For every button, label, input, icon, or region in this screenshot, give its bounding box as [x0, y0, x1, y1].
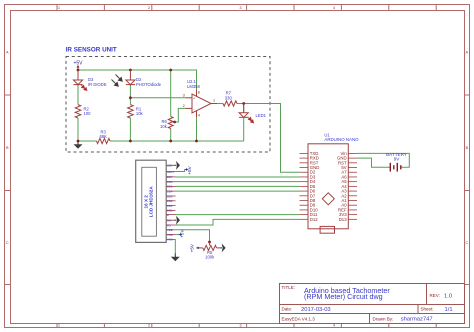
junction +5V at R6	[169, 69, 172, 72]
LCD screen inner rectangle	[142, 167, 157, 236]
svg-text:EasyEDA V4.1.3: EasyEDA V4.1.3	[282, 316, 316, 321]
svg-text:Sheet:: Sheet:	[421, 307, 434, 312]
svg-text:2017-03-03: 2017-03-03	[301, 307, 331, 313]
D2 incident light arrows	[112, 75, 123, 87]
junction R7 / LED1 output node	[242, 102, 245, 105]
photodiode D2	[126, 70, 135, 86]
wire node to LED1 anode	[243, 104, 245, 113]
wire op-amp output to R7	[217, 103, 223, 105]
wire node to R1	[129, 98, 131, 105]
svg-text:3: 3	[183, 94, 185, 98]
LCD pin DB3	[166, 194, 175, 198]
junction ground rail at op-amp pin 4	[195, 140, 198, 143]
Arduino Nano right pin A3	[341, 189, 357, 194]
svg-text:2: 2	[148, 6, 150, 10]
Arduino Nano left pin TXD	[300, 151, 319, 156]
svg-text:8: 8	[198, 90, 200, 94]
Arduino Nano left pin D9	[300, 203, 316, 208]
svg-text:C: C	[465, 241, 468, 245]
Arduino Nano right pin A7	[341, 170, 357, 175]
wire LED1 cathode to ground rail	[243, 117, 245, 141]
svg-text:DB4: DB4	[167, 189, 173, 193]
IR sensor unit enclosure box	[66, 57, 270, 153]
Arduino Nano right pin A0	[341, 203, 357, 208]
Arduino Nano right pin 5V	[341, 165, 357, 170]
svg-text:1: 1	[213, 99, 215, 103]
power flag +5V supply IR sensor unit	[73, 60, 83, 70]
Arduino Nano right pin A2	[341, 193, 357, 198]
svg-text:DB5: DB5	[167, 185, 173, 189]
svg-text:IR DIODE: IR DIODE	[88, 82, 107, 87]
wire LCD RS to Arduino D12	[176, 219, 300, 225]
title text	[304, 286, 390, 301]
ground LCD LED- ground	[174, 161, 180, 170]
battery 9V	[390, 163, 401, 172]
svg-text:DB3: DB3	[167, 194, 173, 198]
Arduino Nano right pin A4	[341, 184, 357, 189]
power flag +5V LCD backlight LED+	[185, 165, 192, 174]
Arduino Nano left pin D2	[300, 170, 316, 175]
LCD pin LED+	[166, 170, 175, 174]
wire LCD VDD to +5V	[176, 234, 179, 236]
wire comparator output to Arduino D2	[244, 104, 300, 173]
wire LCD DB7 to Arduino D3	[176, 176, 300, 178]
svg-text:10k: 10k	[160, 124, 168, 129]
svg-text:PHOTOdiode: PHOTOdiode	[136, 82, 162, 87]
Arduino Nano right pin REF	[338, 207, 357, 212]
svg-text:16 X 2: 16 X 2	[143, 195, 148, 209]
wire LCD VSS to ground	[174, 239, 176, 254]
LCD pin VSS	[166, 238, 175, 242]
svg-text:100: 100	[84, 111, 92, 116]
svg-text:2: 2	[183, 104, 185, 108]
R5 wiper lead	[209, 242, 211, 245]
svg-text:DB7: DB7	[167, 175, 173, 179]
junction photodiode / R1 / op-amp input	[129, 96, 132, 99]
LCD pin LED-	[166, 164, 175, 168]
svg-text:10k: 10k	[136, 111, 144, 116]
junction +5V at D3	[77, 69, 80, 72]
Arduino Nano diamond mark	[322, 193, 334, 205]
svg-text:+5V: +5V	[180, 229, 185, 238]
svg-text:2: 2	[148, 324, 150, 328]
wire R7 to LED1 node	[237, 103, 244, 105]
LED1 indicator	[239, 104, 248, 118]
wire op-amp pin 2 to R6 wiper	[175, 108, 186, 122]
svg-text:RS: RS	[167, 223, 171, 227]
resistor R3 68K	[97, 130, 111, 144]
Arduino Nano right pin GND	[337, 156, 357, 161]
svg-text:IR SENSOR UNIT: IR SENSOR UNIT	[66, 47, 117, 54]
wire +5V rail to R6 top	[170, 70, 172, 117]
op-amp pin numbers and polarity marks	[183, 90, 215, 117]
svg-text:+5V: +5V	[73, 60, 83, 66]
Arduino Nano left pin GND	[300, 165, 320, 170]
svg-text:E: E	[167, 213, 169, 217]
LCD pin DB1	[166, 204, 175, 208]
junction ground rail at R2	[77, 140, 80, 143]
wire photodiode to node	[129, 86, 131, 98]
Arduino Nano left pin D3	[300, 174, 316, 179]
ground LCD RW ground	[174, 216, 180, 225]
svg-text:3: 3	[240, 6, 242, 10]
title block	[280, 284, 465, 324]
wire LCD DB4 to Arduino D6	[176, 190, 300, 192]
R5 right lead	[217, 247, 221, 249]
IR emitter diode D3	[73, 70, 82, 86]
wire op-amp pin 4 to ground rail	[196, 117, 198, 141]
svg-text:DB2: DB2	[167, 199, 173, 203]
svg-text:68K: 68K	[99, 134, 107, 139]
svg-text:3: 3	[240, 324, 242, 328]
svg-text:TITLE:: TITLE:	[282, 285, 296, 290]
svg-text:1/1: 1/1	[445, 307, 453, 313]
resistor R1 10k	[128, 105, 144, 118]
ground IR sensor unit ground	[74, 141, 83, 149]
LED1 emission arrows	[248, 117, 254, 123]
svg-text:LM358: LM358	[187, 84, 200, 89]
Arduino Nano left pin D5	[300, 184, 316, 189]
Arduino Nano left pin D10	[300, 207, 319, 212]
Arduino Nano right pin RST	[338, 160, 357, 165]
LCD pin RS	[166, 223, 175, 227]
junction ground rail at R1	[129, 140, 132, 143]
svg-text:VEE: VEE	[167, 228, 173, 232]
svg-text:LED+: LED+	[167, 170, 174, 174]
svg-text:LED-: LED-	[167, 164, 173, 168]
svg-text:RW: RW	[167, 219, 172, 223]
Arduino Nano right pin A5	[341, 179, 357, 184]
wire LCD LED+ to +5V	[176, 170, 185, 172]
LCD pin RW	[166, 219, 175, 223]
svg-text:Date:: Date:	[282, 307, 293, 312]
wire LCD VEE to R5 wiper	[176, 230, 210, 242]
resistor R2 100	[75, 105, 91, 118]
svg-text:1: 1	[58, 6, 60, 10]
junction R6 wiper tap	[173, 121, 176, 124]
wire ground rail left of R3	[78, 140, 97, 142]
Arduino Nano left pin D4	[300, 179, 316, 184]
svg-text:1: 1	[58, 324, 60, 328]
svg-text:9V: 9V	[394, 156, 401, 161]
svg-text:LED1: LED1	[256, 113, 267, 118]
Arduino Nano USB connector mark	[320, 226, 334, 233]
Arduino Nano left pin D6	[300, 189, 316, 194]
Arduino Nano right pin 3V3	[339, 212, 357, 217]
junction R5 wiper	[208, 241, 211, 244]
svg-text:ARDUINO NANO: ARDUINO NANO	[324, 137, 359, 142]
Arduino Nano right pin D13	[339, 217, 357, 222]
svg-text:+5V: +5V	[189, 243, 194, 252]
LCD pin E	[166, 213, 175, 217]
wire D3 cathode to R2	[77, 86, 79, 105]
wire LCD E to Arduino D11	[176, 214, 300, 216]
svg-text:LCD JHD162A: LCD JHD162A	[149, 186, 154, 218]
Arduino Nano right pin A1	[341, 198, 357, 203]
title block values	[301, 293, 453, 322]
LCD pin DB7	[166, 175, 175, 179]
LCD pin DB5	[166, 185, 175, 189]
svg-text:100k: 100k	[205, 254, 215, 259]
svg-text:sharmaz747: sharmaz747	[401, 317, 433, 323]
LCD pin VDD	[166, 233, 175, 237]
LCD pin DB6	[166, 180, 175, 184]
Arduino Nano left pin D11	[300, 212, 318, 217]
wire R6 bottom to ground rail	[170, 129, 172, 142]
LCD pin DB4	[166, 189, 175, 193]
svg-text:(RPM Meter) Circuit dwg: (RPM Meter) Circuit dwg	[304, 292, 383, 301]
svg-text:4: 4	[198, 113, 200, 117]
Arduino Nano right pin A6	[341, 174, 357, 179]
wire LCD DB6 to Arduino D4	[176, 181, 300, 183]
Arduino Nano right pin Vin	[340, 151, 357, 156]
wire R1 to ground rail	[129, 118, 131, 141]
svg-text:+5V: +5V	[187, 165, 192, 174]
Arduino Nano left pin D12	[300, 217, 319, 222]
svg-text:DB1: DB1	[167, 204, 173, 208]
LCD module 16x2 JHD162A body	[136, 160, 167, 242]
wire LCD DB5 to Arduino D5	[176, 185, 300, 187]
Arduino Nano U3 body	[308, 144, 348, 229]
ground R5 ground	[220, 244, 226, 253]
svg-text:VDD: VDD	[167, 233, 173, 237]
ground LCD VSS ground	[171, 254, 180, 262]
svg-text:DB6: DB6	[167, 180, 173, 184]
wire R2 to ground rail	[77, 118, 79, 141]
op-amp U2.1 LM358	[186, 90, 218, 117]
wire photodiode node to op-amp pin 3	[130, 97, 185, 99]
Arduino Nano left pin RXD	[300, 156, 319, 161]
wire Arduino GND to battery -	[357, 158, 390, 167]
Arduino Nano left pin D7	[300, 193, 316, 198]
Arduino Nano left pin RST	[300, 160, 319, 165]
Arduino Nano left pin D8	[300, 198, 316, 203]
LCD pin DB2	[166, 199, 175, 203]
svg-text:VSS: VSS	[167, 238, 173, 242]
svg-text:D12: D12	[310, 217, 318, 222]
LCD pin VEE	[166, 228, 175, 232]
junction +5V at photodiode	[129, 69, 132, 72]
R5 left lead	[199, 247, 203, 249]
svg-text:REV:: REV:	[430, 293, 440, 298]
resistor R7 330	[223, 91, 237, 107]
svg-text:4: 4	[333, 6, 335, 10]
svg-text:1.0: 1.0	[444, 293, 452, 299]
wire +5V rail to op-amp pin 8	[78, 70, 197, 90]
potentiometer R6 10k	[160, 117, 175, 129]
D3 emission arrows	[81, 85, 87, 91]
svg-text:4: 4	[333, 324, 335, 328]
power flag +5V R5 contrast pot	[189, 243, 199, 252]
svg-text:330: 330	[225, 95, 233, 100]
wire ground rail right of R3	[110, 140, 244, 142]
svg-text:Drawn By:: Drawn By:	[373, 316, 394, 321]
LCD pin DB0	[166, 209, 175, 213]
title block fixed labels	[282, 285, 440, 321]
svg-text:C: C	[6, 241, 9, 245]
resistor R5 100k	[203, 245, 217, 259]
junction ground rail at R6	[169, 140, 172, 143]
svg-text:D13: D13	[339, 217, 347, 222]
power flag +5V LCD VDD	[179, 229, 185, 238]
wire Arduino Vin to battery +	[357, 153, 409, 167]
